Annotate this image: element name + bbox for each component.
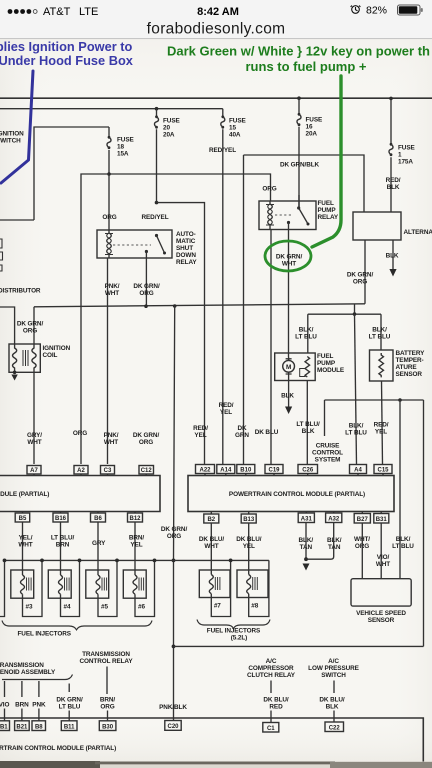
wire BLK/LT BLU to speed sensor [399, 400, 401, 579]
svg-text:YEL: YEL [243, 543, 255, 550]
battery temperature sensor box [370, 350, 394, 381]
svg-text:B30: B30 [102, 724, 114, 730]
pin B21 [15, 721, 30, 731]
svg-text:15A: 15A [117, 151, 129, 158]
svg-text:LT BLU: LT BLU [59, 704, 81, 711]
svg-text:GRN: GRN [235, 432, 249, 439]
fuel pump sender loop [300, 369, 306, 377]
svg-text:C3: C3 [104, 468, 112, 474]
wire injector 7 pin lead [211, 523, 230, 617]
label AUTOMATIC SHUT DOWN RELAY [176, 231, 197, 266]
svg-text:DK BLU/: DK BLU/ [199, 536, 225, 543]
svg-text:B16: B16 [55, 516, 67, 522]
svg-text:FUSE: FUSE [163, 118, 180, 125]
svg-text:YEL: YEL [130, 542, 142, 549]
fuse F20 20A [154, 109, 180, 203]
svg-text:A/C: A/C [328, 658, 339, 665]
node: BLK/TAN join [304, 557, 308, 561]
svg-text:82%: 82% [366, 5, 387, 17]
svg-text:B27: B27 [357, 517, 369, 523]
svg-text:GRY/: GRY/ [27, 432, 42, 439]
photo bottom edge band [0, 761, 432, 768]
bracket transmission solenoid assembly [2, 675, 73, 680]
svg-text:SWITCH: SWITCH [0, 138, 21, 145]
pin C12 [139, 466, 154, 476]
svg-text:40A: 40A [229, 132, 241, 139]
svg-text:A31: A31 [301, 517, 313, 523]
pin B27 [354, 512, 370, 524]
svg-text:ATURE: ATURE [396, 364, 418, 371]
wire BLK/LT BLU down to battery temp sensor [380, 314, 382, 350]
svg-text:AUTO-: AUTO- [176, 231, 196, 238]
wire BRN stub [21, 681, 23, 697]
fuse F16 20A [297, 98, 323, 208]
svg-text:(5.2L): (5.2L) [231, 635, 247, 642]
wire RED/YEL branch to pin A22 [157, 203, 205, 464]
ignition switch label [0, 131, 24, 145]
wire RED/YEL battery sensor to pin C15 [382, 381, 383, 464]
fuel injector 5 box [86, 570, 109, 598]
svg-text:DK BLU/: DK BLU/ [236, 536, 262, 543]
wire bottom header to right edge riser [174, 645, 424, 647]
ground arrow (BLK/TAN) [303, 564, 310, 571]
ASD switch contact [155, 234, 158, 237]
svg-text:CONTROL: CONTROL [312, 450, 343, 457]
svg-text:WHT: WHT [204, 543, 218, 550]
svg-text:IGNITION: IGNITION [0, 131, 24, 138]
svg-text:CLUTCH RELAY: CLUTCH RELAY [247, 672, 296, 679]
svg-text:ORG: ORG [139, 290, 153, 297]
wire injector2 return (offscreen) [0, 560, 5, 616]
fuel pump level resistor [305, 357, 310, 377]
svg-text:BLK: BLK [302, 428, 315, 435]
svg-text:WHT: WHT [282, 261, 296, 268]
vehicle speed sensor box [351, 579, 411, 606]
svg-text:C19: C19 [268, 468, 280, 474]
svg-text:BRN: BRN [56, 542, 70, 549]
svg-text:FUSE: FUSE [306, 117, 323, 124]
wire right edge run down [423, 400, 425, 646]
fuse F18 15A [107, 127, 135, 230]
node: injector 5 return [115, 559, 119, 563]
node: injector 3 return [40, 559, 44, 563]
svg-text:WHT: WHT [27, 439, 41, 446]
pin B1 [0, 721, 10, 731]
svg-text:C26: C26 [302, 468, 314, 474]
svg-text:DK GRN/: DK GRN/ [17, 321, 44, 328]
svg-text:MODULE: MODULE [317, 367, 345, 374]
svg-text:ALTERNATOR: ALTERNATOR [404, 229, 432, 236]
svg-text:runs to fuel pump +: runs to fuel pump + [246, 59, 367, 74]
node: injector 4 return [78, 559, 82, 563]
pin A32 [326, 512, 342, 523]
node: injector2 return [3, 559, 7, 563]
svg-text:RED/YEL: RED/YEL [209, 147, 236, 154]
alternator box [353, 212, 401, 240]
pin B31 [374, 512, 389, 524]
svg-text:BLK: BLK [387, 184, 400, 191]
svg-text:#7: #7 [214, 603, 221, 610]
svg-text:20A: 20A [163, 132, 175, 139]
svg-text:B11: B11 [64, 724, 75, 730]
ground arrow (ignition coil) [11, 375, 17, 381]
svg-text:B8: B8 [35, 724, 43, 730]
svg-text:ORG: ORG [73, 430, 87, 437]
wire VIO/WHT B31 to speed sensor [380, 524, 382, 579]
top border bus line A [0, 97, 432, 99]
node: bottom header tap [172, 645, 176, 649]
fuel injector 3 coil [21, 575, 25, 594]
svg-text:YEL: YEL [220, 409, 232, 416]
fuel pump module box [275, 353, 316, 381]
ignition coil left winding [13, 344, 17, 372]
svg-text:CONTROL RELAY: CONTROL RELAY [79, 658, 133, 665]
wire PNK to pin B8 [38, 709, 40, 721]
wire BLK/TAN A32 [306, 523, 334, 559]
fuel pump relay box [259, 201, 316, 230]
ignition coil ground node [13, 371, 17, 375]
svg-text:COMPRESSOR: COMPRESSOR [248, 665, 294, 672]
wire DK GRN/ORG asd switch output to bus [145, 252, 147, 307]
svg-text:FUEL: FUEL [317, 353, 333, 360]
svg-text:BRN/: BRN/ [129, 535, 145, 542]
pin B5 [15, 512, 30, 523]
svg-text:RED/: RED/ [374, 422, 389, 429]
svg-text:B1: B1 [0, 724, 8, 730]
wire PNK/WHT asd coil to pin C3 [107, 258, 109, 464]
bus wire DK GRN/ORG [34, 304, 365, 307]
fuel injector 6 coil [133, 575, 137, 594]
node: speed sensor ground tap [398, 398, 402, 402]
node: fuse20 tap on line B [155, 107, 159, 111]
green ellipse circling DK GRN/WHT [265, 241, 311, 271]
svg-text:RED/: RED/ [193, 425, 208, 432]
node: fuse16 tap on line A [297, 96, 301, 100]
distributor pickup fragment at left edge [0, 239, 3, 271]
svg-text:FUSE: FUSE [398, 145, 415, 152]
svg-text:TEMPER-: TEMPER- [396, 357, 424, 364]
signal dots [8, 9, 13, 14]
node: asd output on bus [144, 304, 148, 308]
pin A7 [27, 466, 41, 476]
fuel pump motor symbol M [283, 360, 295, 372]
svg-text:IGNITION: IGNITION [43, 345, 71, 352]
svg-text:WHT: WHT [105, 290, 119, 297]
svg-text:B13: B13 [243, 517, 255, 523]
ignition coil core bars [23, 350, 28, 366]
wire DK BLU/BLK to pin C22 [333, 711, 335, 723]
svg-text:RED/: RED/ [219, 402, 234, 409]
ASD switch blade [157, 236, 165, 254]
ASD relay mechanical link (dashed) [113, 244, 151, 246]
pin C20 [165, 721, 181, 731]
svg-text:#8: #8 [251, 603, 258, 610]
wire BLK fuel pump ground [288, 381, 290, 407]
svg-text:Under Hood Fuse Box: Under Hood Fuse Box [0, 53, 134, 68]
svg-text:20A: 20A [306, 131, 318, 138]
blue hand-drawn pointer line [1, 71, 33, 183]
ignition coil right winding [32, 344, 36, 372]
svg-text:M: M [286, 364, 291, 371]
green hand-drawn wire highlight line [312, 76, 341, 247]
svg-text:YEL: YEL [375, 429, 387, 436]
svg-text:TRANSMISSION: TRANSMISSION [82, 651, 130, 658]
label BATTERY TEMPERATURE SENSOR [396, 350, 426, 378]
wire ORG branch to pin A2 [81, 174, 109, 464]
svg-text:A14: A14 [220, 468, 232, 474]
svg-text:LT BLU: LT BLU [345, 430, 367, 437]
svg-text:#4: #4 [64, 604, 71, 611]
node: sensor row stub on bus [353, 312, 357, 316]
wire DK GRN/LT BLU to pin B11 [68, 711, 70, 721]
wire ORG from fuse18 junction to fuel pump relay coil [109, 174, 271, 201]
svg-text:FUEL INJECTORS: FUEL INJECTORS [207, 628, 261, 635]
pin B11 [61, 721, 77, 731]
fuel pump relay link (dashed) [275, 214, 293, 216]
alarm clock icon [351, 6, 361, 14]
svg-text:RELAY: RELAY [318, 214, 339, 221]
svg-text:18: 18 [117, 144, 124, 151]
fuel injector 7 coil [209, 575, 213, 594]
wire trans control relay stub [106, 667, 108, 695]
svg-text:VIO: VIO [0, 702, 9, 709]
battery temp sensor resistor [379, 353, 384, 377]
pin A4 [350, 465, 367, 476]
svg-text:PUMP: PUMP [317, 360, 336, 367]
svg-text:DK BLU/: DK BLU/ [319, 697, 345, 704]
svg-text:1: 1 [398, 152, 402, 159]
svg-text:RED/YEL: RED/YEL [142, 214, 169, 221]
pin C3 [101, 466, 115, 476]
svg-text:LT BLU: LT BLU [369, 334, 391, 341]
svg-text:#5: #5 [101, 604, 108, 611]
svg-text:ORG: ORG [167, 533, 181, 540]
ignition coil box [9, 344, 40, 372]
fuel injector 6 box [123, 570, 146, 598]
svg-text:Dark Green w/ White } 12v key: Dark Green w/ White } 12v key on power t… [167, 44, 430, 59]
svg-text:CRUISE: CRUISE [316, 443, 340, 450]
svg-text:SENSOR: SENSOR [396, 371, 423, 378]
wire DK GRN down to pin B10 [243, 155, 245, 464]
svg-text:LT BLU/: LT BLU/ [51, 535, 75, 542]
svg-text:BLK/: BLK/ [299, 327, 314, 334]
fuel pump relay switch contact [297, 206, 300, 209]
svg-text:AT&T: AT&T [43, 6, 71, 18]
svg-text:B21: B21 [16, 724, 28, 730]
svg-text:C20: C20 [167, 724, 179, 730]
svg-text:WHT: WHT [18, 542, 32, 549]
svg-text:B2: B2 [207, 517, 215, 523]
brace fuel injectors left [2, 621, 152, 630]
svg-text:RED/: RED/ [386, 177, 401, 184]
bus line B [0, 108, 223, 110]
svg-text:RED: RED [269, 704, 283, 711]
svg-text:A/C: A/C [266, 658, 277, 665]
svg-text:DISTRIBUTOR: DISTRIBUTOR [0, 288, 41, 295]
green annotation text: Dark Green w/ White 12v key on power [167, 44, 430, 75]
pin A31 [298, 512, 314, 523]
wire DK GRN/ORG injector feed (between modules) [174, 306, 175, 721]
svg-text:DK GRN/: DK GRN/ [276, 254, 303, 261]
wire alternator to DK GRN/ORG bus [364, 240, 366, 304]
fuel injector 4 box [48, 570, 71, 598]
wire BLK/LT BLU down to fuel pump module [307, 314, 309, 353]
svg-text:LOW PRESSURE: LOW PRESSURE [308, 665, 359, 672]
wire BLK/TAN A31 [305, 523, 307, 559]
svg-text:MATIC: MATIC [176, 238, 196, 245]
svg-text:YEL: YEL [194, 432, 206, 439]
wire fuse16 to fp relay switch [298, 195, 300, 208]
svg-text:FUSE: FUSE [117, 137, 134, 144]
svg-text:B6: B6 [94, 516, 102, 522]
svg-text:15: 15 [229, 125, 236, 132]
pin B6 [91, 512, 106, 523]
svg-text:MODULE (PARTIAL): MODULE (PARTIAL) [0, 491, 49, 498]
svg-text:FUSE: FUSE [229, 118, 246, 125]
svg-text:DK GRN/: DK GRN/ [56, 697, 83, 704]
svg-text:DK BLU: DK BLU [255, 429, 279, 436]
fuel injector 8 coil [247, 575, 251, 594]
svg-text:A2: A2 [77, 468, 85, 474]
svg-text:DK: DK [237, 425, 247, 432]
svg-text:SYSTEM: SYSTEM [315, 457, 341, 464]
svg-text:8:42 AM: 8:42 AM [197, 6, 239, 18]
brace fuel injectors right [197, 620, 270, 629]
svg-text:A22: A22 [199, 468, 211, 474]
svg-text:A4: A4 [354, 468, 362, 474]
node: fuse1 tap on line A [389, 97, 393, 101]
svg-text:GRY: GRY [92, 540, 106, 547]
svg-text:C1: C1 [267, 726, 275, 732]
svg-text:ORG: ORG [353, 279, 367, 286]
svg-text:FUEL INJECTORS: FUEL INJECTORS [18, 631, 72, 638]
node: injector bus feed [172, 559, 176, 563]
svg-text:TAN: TAN [328, 544, 341, 551]
svg-text:DK BLU/: DK BLU/ [263, 697, 289, 704]
svg-text:SOLENOID ASSEMBLY: SOLENOID ASSEMBLY [0, 669, 56, 676]
svg-text:ORG: ORG [262, 186, 276, 193]
pin A14 [217, 465, 235, 476]
svg-text:B5: B5 [19, 516, 27, 522]
svg-text:BLK: BLK [281, 393, 294, 400]
wire injector 5 pin lead [98, 523, 117, 617]
pin B10 [237, 465, 255, 476]
svg-text:BLK/: BLK/ [372, 327, 387, 334]
wire DK GRN/LT BLU stub [68, 684, 70, 693]
battery icon [398, 5, 421, 15]
svg-text:DK GRN/: DK GRN/ [161, 526, 188, 533]
svg-text:WHT: WHT [376, 561, 390, 568]
svg-text:DK GRN/BLK: DK GRN/BLK [280, 162, 320, 169]
svg-text:ORG: ORG [23, 328, 37, 335]
svg-text:PUMP: PUMP [318, 207, 337, 214]
pin B13 [241, 512, 256, 524]
wire DK GRN/WHT fp relay output to fuel pump [288, 223, 290, 358]
svg-text:VEHICLE SPEED: VEHICLE SPEED [356, 610, 406, 617]
wire VIO to pin B1 [4, 709, 6, 721]
svg-text:BLK/: BLK/ [396, 536, 411, 543]
wire BLK/LT BLU to pin A4 [355, 314, 357, 464]
svg-text:forabodiesonly.com: forabodiesonly.com [147, 21, 286, 38]
wire BRN to pin B21 [21, 709, 23, 721]
svg-text:A7: A7 [30, 468, 38, 474]
ASD relay coil [107, 230, 112, 258]
pin C15 [374, 465, 392, 476]
node: RED/YEL branch junction [155, 201, 159, 205]
fuse F1 175A [389, 98, 416, 212]
svg-text:TRANSMISSION: TRANSMISSION [0, 662, 44, 669]
svg-text:BATTERY: BATTERY [396, 350, 426, 357]
fuel injector 7 box [199, 570, 230, 598]
wire BRN/ORG to pin B30 [107, 711, 109, 721]
svg-text:BLK/: BLK/ [349, 423, 364, 430]
label FUEL PUMP RELAY [318, 200, 339, 221]
fuel injector 3 box [11, 570, 34, 598]
svg-text:WHT: WHT [104, 439, 118, 446]
wire a/c relay stub [270, 681, 272, 694]
svg-text:PNK/: PNK/ [104, 432, 119, 439]
injector feed bus DK GRN/ORG [5, 559, 269, 561]
wire a/c switch stub [333, 681, 335, 694]
svg-text:B31: B31 [376, 517, 388, 523]
svg-text:SENSOR: SENSOR [368, 617, 395, 624]
wire BLK alternator ground [392, 240, 394, 269]
fuse F15 40A [221, 109, 247, 464]
pin C19 [265, 465, 283, 476]
pin C22 [325, 722, 344, 732]
svg-text:PNK/BLK: PNK/BLK [159, 704, 187, 711]
svg-text:C22: C22 [329, 726, 341, 732]
pin B12 [128, 512, 143, 523]
fuel pump relay coil [268, 201, 273, 229]
PCM bottom box (partial) [0, 718, 423, 763]
svg-text:A32: A32 [328, 517, 340, 523]
fuel injector 4 coil [59, 575, 63, 594]
node: injector 6 return [153, 559, 157, 563]
fuel injector 8 box [237, 570, 268, 598]
svg-text:BLK: BLK [386, 253, 399, 260]
label FUEL PUMP MODULE [317, 353, 345, 374]
svg-text:PNK: PNK [32, 702, 46, 709]
ground arrow (fuel pump) [285, 407, 292, 415]
pin A22 [196, 465, 215, 476]
svg-text:DK GRN/: DK GRN/ [347, 272, 374, 279]
wire injector 6 pin lead [135, 523, 155, 617]
svg-text:16: 16 [306, 124, 313, 131]
svg-text:pplies Ignition Power to: pplies Ignition Power to [0, 39, 133, 54]
svg-text:#6: #6 [138, 604, 145, 611]
svg-text:20: 20 [163, 125, 170, 132]
wire stub bus to BLK/LT BLU row [354, 304, 356, 314]
wire injector 4 pin lead [61, 523, 80, 617]
svg-text:SWITCH: SWITCH [321, 672, 346, 679]
node: A4 tap [353, 313, 356, 316]
wire: ignition switch lead to distributor area [0, 219, 34, 221]
svg-text:LTE: LTE [79, 6, 98, 18]
wire BLK/LT BLU header [308, 313, 381, 315]
svg-text:BRN/: BRN/ [100, 697, 116, 704]
PCM left box (partial) [0, 476, 160, 512]
svg-text:COIL: COIL [43, 352, 58, 359]
svg-text:POWERTRAIN CONTROL MODULE (PAR: POWERTRAIN CONTROL MODULE (PARTIAL) [229, 491, 365, 498]
fuel pump relay output node [287, 221, 290, 224]
svg-text:POWERTRAIN CONTROL MODULE (PAR: POWERTRAIN CONTROL MODULE (PARTIAL) [0, 745, 116, 752]
svg-text:175A: 175A [398, 159, 413, 166]
wire DK GRN to alternator field [244, 155, 365, 212]
pin B2 [204, 512, 219, 524]
node: injector feed tap on bus [173, 304, 177, 308]
blue annotation text: Supplies Ignition Power to Under Hood Fuse Box [0, 39, 134, 68]
